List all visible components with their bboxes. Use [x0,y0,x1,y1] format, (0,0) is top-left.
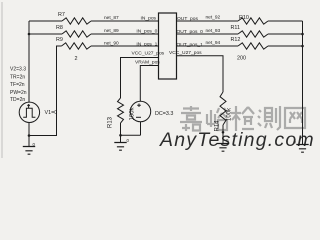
pulse source V1 circle [19,102,39,122]
watermark char ce [258,106,280,130]
svg-text:R8: R8 [56,25,63,31]
resistor R7 [62,18,91,24]
voltage source V2 DC=3.3 circle [130,101,150,121]
svg-text:net_93: net_93 [206,28,221,34]
resistor R14 [220,92,226,125]
svg-text:R12: R12 [231,37,241,43]
wire: ground drop under R13 [120,135,122,142]
svg-text:PW=2n: PW=2n [10,90,27,96]
wire: net_87 from R7 to U27 IN_pos [91,20,159,22]
wire: R14 bottom to ground [222,125,224,143]
wire: net_89 from R8 to U27 IN_pos_0 [91,33,159,35]
wire: net_94 from OUT_pos_1 to R12 [177,45,239,47]
svg-text:2: 2 [75,56,78,62]
svg-text:VRAM_pos: VRAM_pos [135,59,160,65]
svg-text:OUT_pos_0: OUT_pos_0 [177,29,204,35]
watermark char wang [285,108,305,128]
svg-text:100k: 100k [130,106,136,120]
svg-text:R7: R7 [58,12,65,18]
resistor R12 [238,43,268,49]
watermark char jian [231,106,254,131]
wire: R10 to right vertical rail [268,20,303,22]
wire: R11 to right vertical rail [268,33,303,35]
wire: right vertical rail down to ground [302,21,304,145]
watermark char jia [180,106,202,131]
wire: R13 bottom to ground node [120,123,122,135]
node: rail / R11 junction [301,33,304,36]
ground symbol at R13/V2 [114,143,126,151]
wire: net_90 from R9 to U27 IN_pos_1 [91,45,159,47]
svg-text:OUT_pos: OUT_pos [177,16,198,22]
svg-text:R10: R10 [239,15,249,21]
svg-text:0: 0 [127,138,130,143]
wire: R12 to right vertical rail [268,45,303,47]
wire: VRAM_pos pin to DC source top [140,66,158,102]
V2 plus mark [137,104,141,108]
V1 pulse arrow [28,104,30,108]
node: rail / R12 junction [301,45,304,48]
V1 pulse waveform glyph [23,108,35,117]
node: bus / R8 junction [28,33,31,36]
node: R13 / V2 ground junction [119,134,122,137]
svg-text:TD=2n: TD=2n [10,97,25,103]
resistor R9 [62,43,92,49]
svg-text:VCC_U27_pos: VCC_U27_pos [169,50,202,56]
svg-text:R9: R9 [56,37,63,43]
resistor R11 [238,31,268,37]
scan edge artifact [1,2,3,158]
wire: net_92 from OUT_pos to R10 [177,20,239,22]
resistor R10 [238,18,268,24]
svg-text:net_87: net_87 [104,15,119,21]
svg-text:AnyTesting.com: AnyTesting.com [159,129,315,151]
wire: row1 left segment bus to R7 [29,20,62,22]
wire: left bus vertical from row1 corner down to V1 top [28,21,30,102]
svg-text:DC=3.3: DC=3.3 [155,111,173,117]
svg-text:200: 200 [237,55,246,61]
svg-text:TR=2n: TR=2n [10,74,25,80]
svg-text:TF=2n: TF=2n [10,82,25,88]
svg-text:R13: R13 [108,116,114,128]
watermark char yu [207,108,227,130]
ground symbol at R14 [217,144,229,152]
svg-text:V2=3.3: V2=3.3 [10,67,26,73]
wire: ground node to DC source bottom [121,122,141,136]
svg-text:VCC_U27_pos: VCC_U27_pos [132,50,165,56]
svg-text:R14: R14 [215,120,221,132]
wire: net_93 from OUT_pos_0 to R11 [177,33,239,35]
wire: V1 bottom stem to ground [28,123,30,147]
svg-text:IN_pos_0: IN_pos_0 [136,28,157,34]
wire: VCC_U27_pos left pin to R13 top [121,58,159,99]
ground symbol at V1 [23,147,35,155]
node: V1 / R9 ground junction [28,134,31,137]
svg-text:R11: R11 [231,25,241,31]
svg-text:net_92: net_92 [206,15,221,21]
resistor R13 [118,98,124,123]
svg-text:IN_pos: IN_pos [141,15,157,21]
wire: row2 left segment bus to R8 [29,33,62,35]
node: R14 bottom junction [222,131,225,134]
ground symbol at right rail [296,145,308,153]
IC U27 buffer box [159,13,177,79]
svg-text:net_94: net_94 [206,40,221,46]
svg-text:net_89: net_89 [104,28,119,34]
resistor R8 [62,31,91,37]
svg-text:net_90: net_90 [104,40,119,46]
svg-text:100k: 100k [227,107,233,121]
V2 minus mark [136,116,141,118]
wire: R9 left leg down to V1 ground node [30,46,62,136]
svg-text:V1=0: V1=0 [45,110,58,116]
svg-text:IN_pos_1: IN_pos_1 [136,42,157,48]
wire: VCC_U27_pos right pin over to R14 [177,56,224,92]
svg-text:OUT_pos_1: OUT_pos_1 [177,42,204,48]
